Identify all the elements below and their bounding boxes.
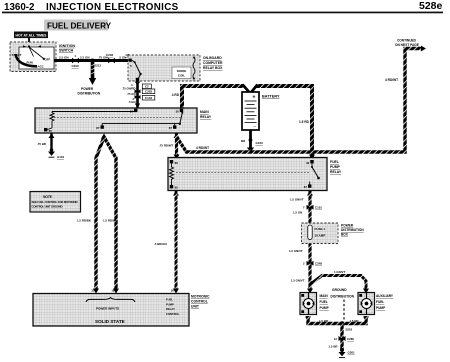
- svg-text:G100: G100: [256, 141, 264, 145]
- svg-text:FUEL: FUEL: [330, 160, 339, 164]
- svg-text:85: 85: [175, 186, 179, 190]
- pump ground wires 1.5 BR: [305, 316, 369, 324]
- battery ground wire BR: [241, 130, 263, 148]
- svg-text:C202: C202: [106, 53, 114, 57]
- connector C200: [72, 54, 80, 68]
- svg-text:.75 RD/WT: .75 RD/WT: [159, 144, 174, 148]
- connector C101: [303, 205, 322, 210]
- svg-text:.75 GN: .75 GN: [127, 92, 136, 96]
- auxiliary fuel pump label: [376, 294, 394, 310]
- ground G301: [339, 348, 355, 358]
- svg-text:PUMP: PUMP: [330, 165, 341, 169]
- note box: [30, 192, 81, 213]
- svg-text:FUEL: FUEL: [166, 298, 173, 302]
- svg-text:2.5 GN: 2.5 GN: [59, 56, 69, 60]
- svg-text:BATTERY: BATTERY: [262, 95, 280, 99]
- svg-text:4 RD/WT: 4 RD/WT: [196, 146, 209, 150]
- svg-text:PUMP: PUMP: [376, 306, 386, 310]
- svg-text:ON NEXT PAGE: ON NEXT PAGE: [395, 43, 419, 47]
- svg-text:C200: C200: [72, 64, 80, 68]
- svg-text:1.5 GN/VT: 1.5 GN/VT: [289, 249, 303, 253]
- power distribution feed: [78, 61, 101, 96]
- svg-text:1.5 BR: 1.5 BR: [319, 319, 329, 323]
- ground G104: [48, 152, 64, 160]
- svg-text:1360-2: 1360-2: [4, 2, 35, 13]
- svg-text:FUEL: FUEL: [376, 300, 384, 304]
- page subtitle FUEL DELIVERY: [44, 20, 112, 31]
- auxiliary fuel pump: [358, 293, 375, 315]
- svg-text:C2: C2: [145, 85, 149, 89]
- svg-text:S212: S212: [95, 64, 102, 68]
- wire 2.5 GN from ignition switch to relay box: [54, 59, 129, 62]
- svg-text:20: 20: [171, 289, 175, 293]
- svg-text:ACC: ACC: [38, 65, 45, 69]
- svg-text:NOTE: NOTE: [43, 195, 52, 199]
- battery tap: [243, 85, 258, 93]
- header rule: [2, 12, 443, 14]
- svg-text:86: 86: [175, 161, 179, 165]
- svg-text:C101: C101: [315, 206, 322, 210]
- svg-text:30: 30: [306, 161, 310, 165]
- svg-text:BOX: BOX: [341, 233, 349, 237]
- splice S212: [91, 59, 102, 68]
- svg-text:PUMP: PUMP: [320, 306, 330, 310]
- svg-text:SOLID STATE: SOLID STATE: [95, 319, 125, 324]
- svg-text:87: 87: [96, 126, 100, 130]
- wire 4 RD/WT bus: [177, 46, 426, 152]
- title block: [4, 0, 443, 13]
- svg-text:RELAY BOX: RELAY BOX: [203, 66, 223, 70]
- svg-text:12: 12: [334, 337, 338, 341]
- svg-text:PUMP: PUMP: [166, 302, 174, 306]
- splice S218: [340, 321, 353, 331]
- wire from relay box pin 4 to main relay 86: [131, 81, 140, 108]
- motronic control unit label: [191, 294, 210, 308]
- main pump feed arrow: [307, 289, 313, 294]
- on-board computer relay box: [128, 55, 200, 81]
- HOT AT ALL TIMES tag: [14, 32, 48, 39]
- wire .5 BR/GN from fuel pump relay 85 to motronic 20: [154, 191, 179, 294]
- svg-text:4 RD/WT: 4 RD/WT: [385, 78, 398, 82]
- battery feed wire 4 RD: [172, 86, 312, 157]
- svg-text:G104: G104: [57, 155, 64, 159]
- svg-text:POWER: POWER: [81, 87, 94, 91]
- svg-text:POWER: POWER: [341, 223, 354, 227]
- svg-text:+: +: [253, 95, 256, 101]
- svg-text:C280: C280: [347, 337, 354, 341]
- main relay: [35, 108, 197, 133]
- main fuel pump label: [320, 294, 330, 310]
- fuel pump relay label: [330, 160, 342, 174]
- svg-text:10 AMP: 10 AMP: [315, 234, 326, 238]
- svg-text:1.5 BR: 1.5 BR: [350, 319, 360, 323]
- connector C280: [334, 336, 354, 341]
- svg-text:87: 87: [169, 126, 173, 130]
- ground distribution label: [331, 288, 355, 321]
- svg-text:S218: S218: [346, 327, 353, 331]
- battery: [242, 92, 259, 130]
- svg-text:1.5 GN/VT: 1.5 GN/VT: [291, 279, 305, 283]
- svg-text:RELAY: RELAY: [330, 170, 342, 174]
- svg-text:CONTROL UNIT GROUND: CONTROL UNIT GROUND: [32, 205, 63, 209]
- svg-text:UNIT: UNIT: [191, 304, 200, 308]
- connector tag C2: [142, 84, 151, 89]
- svg-text:1.5 RD/BK: 1.5 RD/BK: [77, 219, 92, 223]
- svg-text:RELAY: RELAY: [200, 115, 212, 119]
- ignition switch label: [59, 44, 75, 53]
- svg-text:POWER INPUTS: POWER INPUTS: [96, 307, 119, 311]
- svg-text:FUEL: FUEL: [320, 300, 328, 304]
- svg-text:MAIN: MAIN: [320, 294, 329, 298]
- svg-text:87: 87: [304, 185, 308, 189]
- svg-text:RELAY: RELAY: [166, 307, 175, 311]
- main fuel pump: [300, 293, 317, 315]
- svg-text:1.5 GN/VT: 1.5 GN/VT: [290, 198, 304, 202]
- svg-text:COMPUTER: COMPUTER: [203, 61, 223, 65]
- svg-text:528e: 528e: [419, 0, 443, 12]
- svg-text:DISTRIBUTION: DISTRIBUTION: [331, 295, 355, 299]
- svg-text:1.5 RD/BK: 1.5 RD/BK: [103, 219, 118, 223]
- svg-text:OFF: OFF: [45, 58, 51, 62]
- wire .75 BR from main relay 85 to ground: [37, 133, 55, 152]
- svg-text:ON-BOARD: ON-BOARD: [203, 56, 222, 60]
- svg-text:1.5 RD: 1.5 RD: [299, 120, 310, 124]
- connector C248: [303, 261, 322, 266]
- svg-text:MOTRONIC: MOTRONIC: [191, 294, 210, 298]
- wires 1.5 RD/BK from main relay 87 to motronic: [77, 134, 119, 294]
- wire 1.5 GN/VT from fuel pump relay 87: [290, 191, 313, 290]
- wire .75 RD/WT from main relay 87: [159, 133, 180, 160]
- wire 1 GN/VT branch to auxiliary pump: [291, 270, 369, 294]
- svg-text:HOT AT ALL TIMES: HOT AT ALL TIMES: [16, 33, 48, 37]
- svg-text:FUSE 1: FUSE 1: [315, 227, 326, 231]
- svg-text:30: 30: [176, 109, 180, 113]
- fuel pump relay: [168, 155, 327, 191]
- ignition switch: [10, 42, 56, 72]
- svg-text:RUN: RUN: [27, 61, 33, 65]
- svg-text:CONTINUED: CONTINUED: [397, 39, 417, 43]
- svg-text:1.5 BR: 1.5 BR: [329, 344, 339, 348]
- svg-text:DISTRIBUTION: DISTRIBUTION: [78, 91, 101, 95]
- svg-text:START: START: [12, 53, 22, 57]
- svg-text:C143: C143: [145, 96, 153, 100]
- connector C202: [106, 53, 115, 63]
- svg-text:DIODE: DIODE: [177, 69, 187, 73]
- svg-text:.75 BR: .75 BR: [37, 142, 47, 146]
- svg-text:.5 GN: .5 GN: [128, 100, 135, 104]
- power distribution box label: [341, 223, 364, 236]
- svg-text:.5 BR/GN: .5 BR/GN: [154, 242, 167, 246]
- svg-text:2.5 GN: 2.5 GN: [80, 56, 90, 60]
- svg-text:4 RD: 4 RD: [172, 93, 180, 97]
- svg-text:GROUND: GROUND: [332, 288, 347, 292]
- fuse 1 in power distribution box: [302, 223, 339, 244]
- svg-text:CONTROL: CONTROL: [191, 299, 208, 303]
- on-board computer relay box label: [203, 56, 223, 70]
- svg-text:IGNITION: IGNITION: [59, 44, 75, 48]
- svg-text:C248: C248: [315, 262, 322, 266]
- motronic control unit: [33, 289, 189, 326]
- ground G100: [247, 148, 254, 153]
- svg-text:INJECTION ELECTRONICS: INJECTION ELECTRONICS: [46, 2, 179, 13]
- ground wire 1.5 BR: [329, 324, 343, 351]
- svg-text:C203: C203: [145, 90, 153, 94]
- connector C143: [135, 95, 155, 100]
- connector C203: [135, 89, 155, 94]
- wire from hot tag to ignition switch: [27, 38, 30, 47]
- svg-text:MAIN: MAIN: [200, 110, 209, 114]
- svg-text:AUXILIARY: AUXILIARY: [376, 294, 394, 298]
- svg-text:DISTRIBUTION: DISTRIBUTION: [341, 228, 364, 232]
- svg-text:1 GN/VT: 1 GN/VT: [334, 270, 345, 274]
- continued on next page label: [395, 39, 419, 48]
- svg-text:.75 GN/RD: .75 GN/RD: [122, 86, 136, 90]
- svg-text:CONTROL: CONTROL: [166, 312, 180, 316]
- svg-text:SWITCH: SWITCH: [59, 49, 74, 53]
- svg-text:SEE FUEL CONTROL FOR MOTRONIC: SEE FUEL CONTROL FOR MOTRONIC: [32, 200, 79, 204]
- svg-text:FUEL DELIVERY: FUEL DELIVERY: [47, 21, 112, 30]
- svg-text:18: 18: [111, 289, 115, 293]
- svg-text:35: 35: [91, 289, 95, 293]
- svg-text:1.5 GN: 1.5 GN: [293, 211, 302, 215]
- svg-text:G301: G301: [348, 350, 355, 354]
- svg-text:COIL: COIL: [178, 73, 185, 77]
- main relay label: [200, 110, 212, 119]
